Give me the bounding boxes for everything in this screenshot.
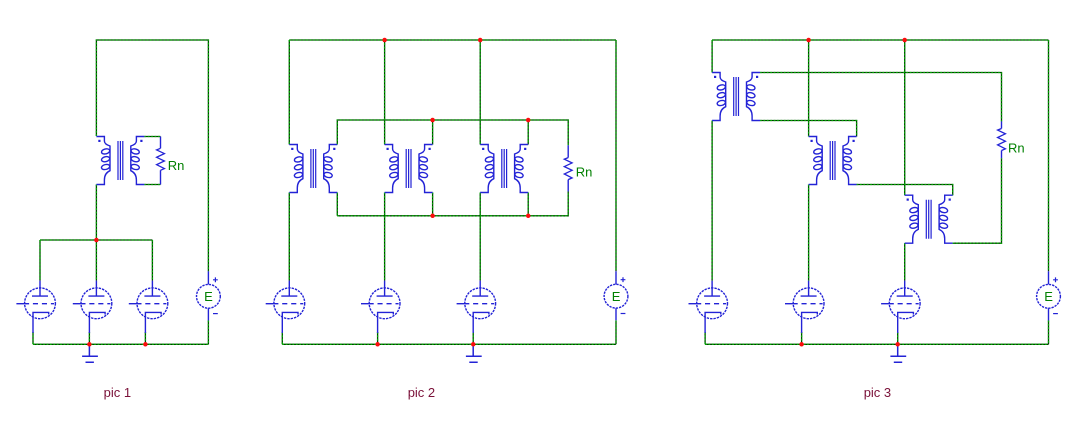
svg-text:Rn: Rn bbox=[168, 158, 185, 173]
tube V2 pic2 bbox=[361, 281, 400, 333]
junction dot pic3 bottom rail t3 bbox=[895, 342, 900, 347]
junction dot pic1 bottom left bbox=[87, 342, 92, 347]
junction dot pic2 lower bus t2 bbox=[430, 214, 435, 219]
source E pic1 bbox=[197, 271, 221, 320]
transformer T3 pic3 bbox=[905, 195, 953, 243]
tube V1 pic2 bbox=[266, 281, 305, 333]
resistor Rn pic1 bbox=[160, 137, 162, 185]
tube V1 pic1 bbox=[16, 281, 55, 333]
svg-text:pic 1: pic 1 bbox=[104, 385, 131, 400]
junction dot pic3 top rail t2 bbox=[806, 38, 811, 43]
svg-text:Rn: Rn bbox=[1008, 141, 1025, 156]
transformer T2 pic3 bbox=[809, 137, 857, 185]
tube V1 pic3 bbox=[689, 281, 728, 333]
ground pic3 bbox=[890, 344, 906, 362]
junction dot pic3 bottom rail t2 bbox=[799, 342, 804, 347]
transformer T1 pic2 bbox=[289, 145, 337, 193]
transformer T2 pic2 bbox=[385, 145, 433, 193]
source E pic3 bbox=[1037, 271, 1061, 320]
tube V3 pic3 bbox=[881, 281, 920, 333]
wires dark layer bbox=[33, 40, 1049, 344]
junction dot pic1 mid rail bbox=[94, 238, 99, 243]
junction dot pic1 bottom right bbox=[143, 342, 148, 347]
transformer pic1 bbox=[96, 137, 144, 185]
junction dot pic2 top rail t2 bbox=[382, 38, 387, 43]
transformer T1 pic3 bbox=[712, 73, 760, 121]
wires bright dashed layer bbox=[33, 40, 1049, 344]
junction dot pic2 top rail t3 bbox=[478, 38, 483, 43]
source E pic2 bbox=[604, 271, 628, 320]
junction dot pic2 bottom rail t2 bbox=[375, 342, 380, 347]
ground pic2 bbox=[466, 344, 482, 362]
resistor Rn pic2 bbox=[567, 145, 569, 191]
junction dot pic2 upper bus t3 bbox=[526, 118, 531, 123]
transformer T3 pic2 bbox=[480, 145, 528, 193]
junction dot pic2 upper bus t2 bbox=[430, 118, 435, 123]
svg-text:pic 3: pic 3 bbox=[864, 385, 891, 400]
junction dot pic2 bottom rail t3 bbox=[471, 342, 476, 347]
tube V2 pic1 bbox=[73, 281, 112, 333]
junction dot pic2 lower bus t3 bbox=[526, 214, 531, 219]
resistor Rn pic3 bbox=[1001, 121, 1003, 158]
ground pic1 bbox=[82, 344, 98, 362]
junction dot pic3 top rail t3 bbox=[902, 38, 907, 43]
tube V3 pic2 bbox=[457, 281, 496, 333]
svg-text:Rn: Rn bbox=[576, 165, 593, 180]
tube V2 pic3 bbox=[785, 281, 824, 333]
tube V3 pic1 bbox=[129, 281, 168, 333]
svg-text:pic 2: pic 2 bbox=[408, 385, 435, 400]
